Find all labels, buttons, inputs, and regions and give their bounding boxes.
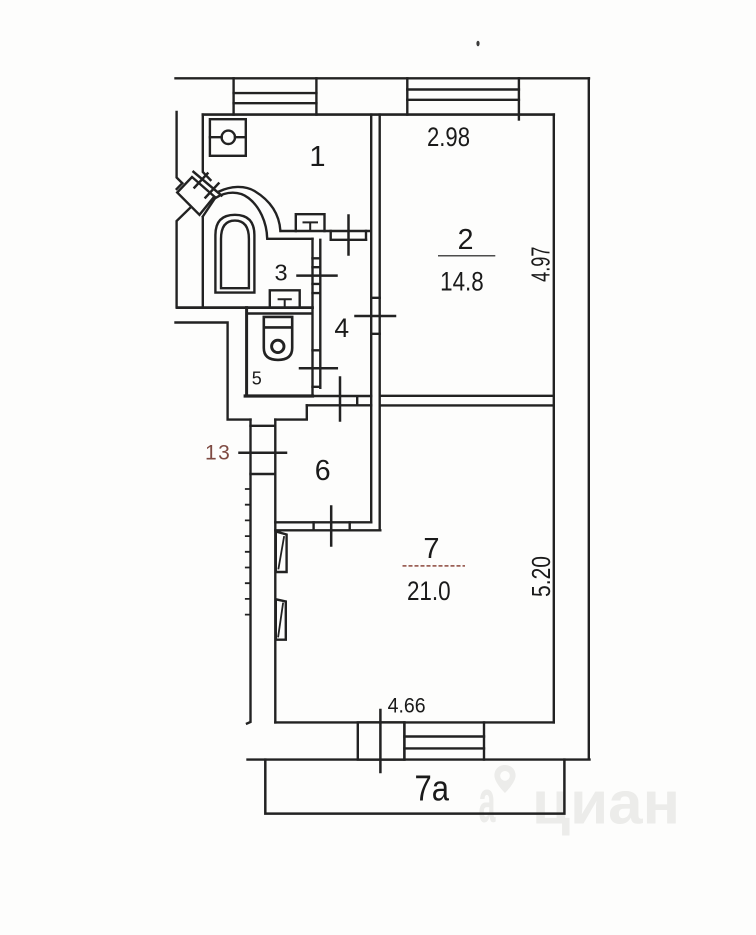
room7 south inner wall xyxy=(275,721,554,723)
outer step left of room5 xyxy=(176,323,251,420)
svg-text:13: 13 xyxy=(205,441,231,464)
stray mark top xyxy=(476,41,479,47)
dim tick 4.66 xyxy=(379,710,382,772)
balcony door box xyxy=(358,722,405,759)
corridor right line xyxy=(274,420,276,723)
entrance door leaf D1 xyxy=(177,177,214,215)
bath sink tap xyxy=(279,299,291,305)
leaf 1 inner diagonal xyxy=(279,537,285,569)
inner jamb diagonal xyxy=(203,198,216,217)
window W1 glazing lines xyxy=(234,93,317,103)
corridor hatch ticks xyxy=(246,489,251,615)
underline room2 xyxy=(438,255,495,257)
toilet door rungs xyxy=(313,350,321,387)
bottom outer wall xyxy=(248,758,590,760)
window W1 right jamb xyxy=(315,78,317,114)
room6 south wall lower line xyxy=(275,529,380,531)
left outer wall lower segment xyxy=(177,208,190,307)
svg-text:4.66: 4.66 xyxy=(388,693,426,717)
svg-text:5.20: 5.20 xyxy=(526,556,556,597)
stove midline xyxy=(210,136,246,138)
curved bath wall inner arc xyxy=(216,193,267,239)
chamfer jamb tick 1 xyxy=(195,174,208,188)
svg-text:21.0: 21.0 xyxy=(407,576,451,606)
svg-text:2: 2 xyxy=(458,224,474,256)
dim tick 13 xyxy=(240,452,287,455)
window leaf 1 on west wall xyxy=(276,532,287,573)
left outer wall upper segment xyxy=(177,112,183,183)
room5 north inner line xyxy=(248,312,311,315)
bath/hall wall west line xyxy=(311,239,313,395)
bath south wall line xyxy=(178,306,313,309)
entry jamb hook top xyxy=(177,183,183,189)
stove xyxy=(210,119,246,156)
bath/hall wall east line xyxy=(319,240,321,388)
underline room7 xyxy=(403,565,466,567)
toilet bowl xyxy=(264,327,292,360)
room6 south wall upper line xyxy=(275,521,371,523)
kitchen sink tap xyxy=(304,222,318,229)
curved bath wall outer arc xyxy=(219,187,280,231)
balcony window jambs xyxy=(404,722,484,759)
room1 south wall lower line xyxy=(331,239,366,241)
chamfer wall outer line xyxy=(194,172,222,196)
bath north interior line xyxy=(268,238,313,240)
leaf 2 inner diagonal xyxy=(278,604,283,637)
right outer wall xyxy=(588,78,590,758)
balcony 7a outline xyxy=(265,760,564,814)
room5 south wall xyxy=(245,394,312,397)
room 1 interior west line xyxy=(203,115,211,180)
svg-text:4.97: 4.97 xyxy=(525,247,555,282)
room6 north wall upper line xyxy=(313,396,372,405)
hall/room2 door tick xyxy=(356,315,396,318)
corridor left line xyxy=(247,420,251,724)
balcony window glazing xyxy=(404,737,484,749)
svg-text:6: 6 xyxy=(315,455,331,487)
entry door box rungs xyxy=(251,426,276,474)
kitchen sink xyxy=(296,214,325,231)
bath door tick xyxy=(298,274,337,277)
toilet door tick xyxy=(300,367,337,370)
svg-text:а: а xyxy=(479,768,496,835)
door K1 tick xyxy=(347,216,350,255)
toilet tank xyxy=(264,317,292,328)
room5 west wall xyxy=(245,308,248,396)
svg-text:2.98: 2.98 xyxy=(427,122,470,152)
bath sink xyxy=(270,290,300,306)
door K1 rungs xyxy=(331,231,366,240)
svg-text:циан: циан xyxy=(532,770,680,837)
rooms 2/7 divider lower line xyxy=(380,404,554,406)
rooms 2/7 divider upper line xyxy=(380,395,554,397)
bathtub outer xyxy=(215,215,254,293)
toilet circle xyxy=(272,340,284,352)
rooms 1/2 wall west line xyxy=(370,115,372,523)
rooms 1/2 wall east line xyxy=(379,115,381,531)
toilet tank divider xyxy=(264,326,292,329)
bathtub inner xyxy=(221,221,249,289)
top outer wall xyxy=(176,77,590,79)
outer step right of corridor xyxy=(275,405,307,419)
window W1 left jamb xyxy=(232,78,234,114)
hall/room2 door rungs xyxy=(371,298,380,334)
svg-text:1: 1 xyxy=(309,141,325,173)
chamfer jamb tick 2 xyxy=(206,184,219,198)
room6 south door tick xyxy=(330,507,333,546)
window W2 right jamb xyxy=(518,78,520,119)
room6 south door rungs xyxy=(314,522,350,530)
top inner wall line xyxy=(203,113,554,116)
svg-text:7а: 7а xyxy=(415,768,450,809)
svg-text:4: 4 xyxy=(334,313,349,343)
bath door rungs xyxy=(313,258,321,293)
stove burner circle xyxy=(222,131,235,144)
window leaf 2 on west wall xyxy=(276,599,286,639)
svg-text:7: 7 xyxy=(423,533,439,565)
svg-text:3: 3 xyxy=(274,259,287,285)
window W2 glazing lines xyxy=(407,90,519,100)
right inner wall xyxy=(553,115,555,723)
bath interior west wall xyxy=(202,218,204,308)
room1 south wall top line xyxy=(281,230,371,232)
svg-text:14.8: 14.8 xyxy=(440,266,484,296)
watermark text bottom xyxy=(532,770,680,837)
svg-text:5: 5 xyxy=(252,369,262,389)
room6 door tick xyxy=(339,378,342,421)
room6 north wall lower line xyxy=(307,404,371,406)
watermark pin icon xyxy=(479,765,516,835)
window W2 left jamb xyxy=(406,78,408,114)
